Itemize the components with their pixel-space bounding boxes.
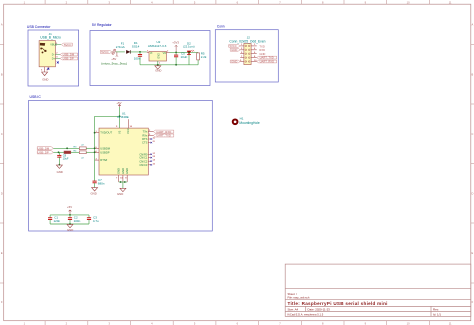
VCC pin stub [127,119,129,128]
svg-text:USB IC: USB IC [30,95,42,99]
wire ferrite to R4 [71,151,80,153]
capacitor C5 [174,52,178,64]
svg-text:USBDP: USBDP [100,150,109,154]
bottom gnd rail of U1 [119,181,128,183]
ground decoupling [67,224,73,227]
ground symbol under J1 [42,71,48,76]
ground under C7 [92,188,98,191]
U1 body [99,128,148,175]
svg-text:USB_DP: USB_DP [63,57,74,61]
capacitor C3 [87,215,91,224]
svg-text:680n: 680n [98,181,105,185]
U1 right pin names [139,130,148,167]
svg-text:VCC: VCC [126,128,130,134]
svg-text:File: rasp_usb.sch: File: rasp_usb.sch [288,295,310,299]
section box: USB IC [29,100,213,231]
global label UART_RXD at U1 [153,130,174,133]
capacitor C2 [68,215,72,224]
header J2 pin stubs [240,46,257,62]
svg-text:GND: GND [91,192,97,196]
svg-text:Rev:: Rev: [433,307,439,311]
svg-text:GND: GND [117,192,123,196]
junction C5 bottom [175,64,177,66]
header J2 body [244,44,251,65]
junction +3V3 [175,52,177,54]
svg-text:(22.1um): (22.1um) [183,45,195,49]
wire diode to regulator input [130,51,147,53]
svg-text:Date: 2020-11-23: Date: 2020-11-23 [308,307,331,311]
wire D- to USB_DM [55,54,60,56]
frame column ticks top [45,0,429,4]
resistor R3 [79,147,86,150]
svg-text:GND: GND [157,53,160,59]
svg-text:Id: 1/1: Id: 1/1 [433,312,441,316]
U1 right pin stubs (connected) [148,132,153,136]
svg-text:100n: 100n [74,219,81,223]
section box: Conn [215,30,278,82]
svg-text:10uF: 10uF [63,157,69,161]
svg-text:GND: GND [57,170,63,174]
svg-text:D: D [1,192,3,196]
NC cross on ID pin [57,61,59,63]
global label 5VCC [61,43,72,46]
svg-text:GND: GND [117,168,121,174]
ground under C8 [56,165,62,168]
U1 bottom pin numbers [116,177,127,179]
junction at +5V/V3 [119,115,121,117]
svg-text:GND: GND [259,52,265,56]
global label USB_DP [60,57,78,60]
wire 5VCC to fuse [111,51,113,53]
svg-text:B: B [1,73,3,77]
svg-text:100n: 100n [134,57,141,61]
bottom rail decoupling [50,223,89,225]
capacitor C7 [93,181,97,188]
junction bottom U2 [157,64,159,66]
U2 pin stubs [147,51,149,53]
junction LED top [188,52,190,54]
svg-text:MountingHole: MountingHole [239,121,260,125]
fuse F1 [112,49,116,55]
wire down to ground [122,182,124,188]
power flag +5V [116,52,118,57]
global label GND at J2 pin3 [230,48,240,51]
svg-text:RTS#: RTS# [100,158,107,162]
frame row ticks left and right [0,45,474,284]
ferrite bead FB1 [64,151,71,154]
junction at C4 [139,51,141,53]
svg-text:2.5mA: 2.5mA [116,45,126,49]
wire U2 output to +3V3 [170,51,199,53]
svg-text:CN/C3: CN/C3 [139,163,148,167]
svg-text:USBDM: USBDM [100,146,110,150]
header J2 pin circles [245,45,250,62]
svg-text:UART_TXD: UART_TXD [156,134,171,138]
svg-text:5VCC: 5VCC [101,50,108,54]
U1 left pin numbers [96,131,98,160]
svg-text:(micro_5vcc_5vcc): (micro_5vcc_5vcc) [101,61,127,65]
svg-text:CN/C2: CN/C2 [139,159,148,163]
svg-text:AMS1117-3.3: AMS1117-3.3 [148,44,167,48]
svg-text:UART_TXD: UART_TXD [260,56,274,60]
svg-text:D: D [471,192,473,196]
svg-text:RTS: RTS [142,137,148,141]
top rail decoupling [50,214,89,216]
regulator U2 body [149,52,167,62]
junction bottom rail [69,223,71,225]
U1 left pin stubs [95,133,99,160]
svg-text:USB_B_Micro: USB_B_Micro [40,35,61,39]
global label UART_TXD at U1 [153,134,174,137]
NC cross on shield [47,68,49,70]
svg-text:GND: GND [231,60,237,64]
LED D2 symbol [187,50,194,65]
svg-text:SS14: SS14 [132,44,140,48]
global label UART_TXD at J2 pin8 [257,56,277,59]
U1 right NC pins [148,139,151,165]
svg-text:CTS: CTS [142,141,148,145]
svg-text:+5V: +5V [116,101,121,105]
global label USB_DM into U1 [37,147,53,150]
section box: 5V Regulator [90,31,210,86]
wire fuse to diode [116,51,125,53]
connector J1 body [39,41,55,67]
svg-text:10uF: 10uF [181,55,188,59]
svg-text:KiCad E.D.A. eeschema 5.1.5: KiCad E.D.A. eeschema 5.1.5 [288,312,324,316]
svg-text:120n: 120n [54,219,61,223]
svg-text:RXs: RXs [142,134,148,138]
bottom rail [140,64,198,66]
svg-text:5V Regulator: 5V Regulator [92,23,113,27]
wire USB_DP to ferrite [53,151,64,153]
svg-text:Size: A4: Size: A4 [288,307,299,311]
svg-text:CN/C1: CN/C1 [139,156,148,160]
U1 right pin numbers [149,130,156,165]
diode D1 [126,50,130,53]
wire VBUS to 5VCC label [55,44,61,46]
svg-text:H1: H1 [240,116,244,120]
svg-text:Conn_02x05_Odd_Even: Conn_02x05_Odd_Even [229,40,265,44]
resistor R4 [79,151,86,154]
junction above C8 ground [59,164,61,166]
section box: USB Connector [28,30,79,86]
svg-text:+3V3: +3V3 [172,41,179,45]
ground symbol under U2 [155,65,161,69]
wires R3 R4 to U1 [86,147,94,149]
svg-text:E: E [472,251,474,255]
global label GND at J2 pin9 [230,60,240,63]
svg-text:E: E [1,251,3,255]
ground under U1 [120,188,126,191]
svg-text:+5V: +5V [67,205,72,209]
svg-text:UART_RXD: UART_RXD [260,60,274,64]
svg-text:C: C [471,132,473,136]
svg-text:B: B [472,73,474,77]
U1 bottom pin stubs [119,175,128,182]
power flag +3V3 [175,45,178,52]
capacitor C8 on DP [57,152,61,165]
U2 pin numbers [147,51,169,65]
svg-text:GND: GND [42,77,48,81]
svg-text:D-: D- [52,53,55,56]
global label USB_DM [60,53,78,56]
svg-text:2.2k: 2.2k [201,55,207,59]
svg-text:TXD/OUT: TXD/OUT [100,131,112,135]
resistor R5 [197,52,200,64]
capacitor C4 [138,52,142,65]
pin numbers in connector [41,43,58,72]
svg-text:USB_DP: USB_DP [38,151,49,155]
svg-text:GND: GND [125,168,129,174]
R3 R4 labels [74,145,85,160]
mounting hole H1 [233,119,238,124]
wire D+ to USB_DP [55,58,60,60]
NC crosses right pins [151,138,153,165]
svg-text:USB Connector: USB Connector [27,25,51,29]
svg-text:4.7u: 4.7u [93,219,99,223]
wire +5V down to U1 [119,107,121,128]
frame column ticks bottom [45,321,429,325]
junction top rail [69,214,71,216]
wire horizontal to V3 branch [95,115,120,117]
svg-text:TXD: TXD [259,44,264,48]
svg-text:Conn: Conn [217,25,225,29]
svg-text:TXs: TXs [143,130,148,134]
svg-text:V3: V3 [117,130,121,134]
svg-text:GND: GND [67,228,73,232]
svg-text:C: C [1,132,3,136]
junction at pin1 [94,132,96,134]
global label 5VCC at J2 pin1 [229,45,241,48]
svg-text:GND: GND [231,48,237,52]
shield pin stubs [44,67,46,71]
global label USB_DP into U1 [37,151,53,154]
svg-text:CH340E: CH340E [117,115,129,119]
svg-text:5VCC: 5VCC [64,43,71,47]
U1 left pin names [100,131,112,162]
svg-text:Title: RaspberryPi USB serial: Title: RaspberryPi USB serial shield min… [288,301,388,306]
svg-text:D+: D+ [52,57,56,60]
global label UART_RXD at J2 pin10 [257,60,277,63]
USB trident glyph [40,43,47,53]
capacitor C1 [48,215,52,224]
junction on DP wire [58,151,60,153]
title block border [285,264,471,316]
header J2 pin numbers [240,44,257,62]
svg-text:A: A [1,23,3,27]
svg-text:RXD: RXD [259,48,265,52]
svg-text:VO: VO [163,52,167,55]
svg-text:GND: GND [155,68,161,72]
svg-text:VI: VI [150,52,153,55]
wire U2 GND down [157,61,159,65]
junction on DM wire [66,147,68,149]
svg-text:GND: GND [121,168,125,174]
svg-text:Sheet: /: Sheet: / [288,292,298,296]
global label 5VCC input [100,50,112,53]
wire USB_DM to R3 [53,147,79,149]
svg-text:A: A [472,23,474,27]
wire V3 node down to C7 [94,116,96,181]
svg-text:5VCC: 5VCC [230,44,237,48]
